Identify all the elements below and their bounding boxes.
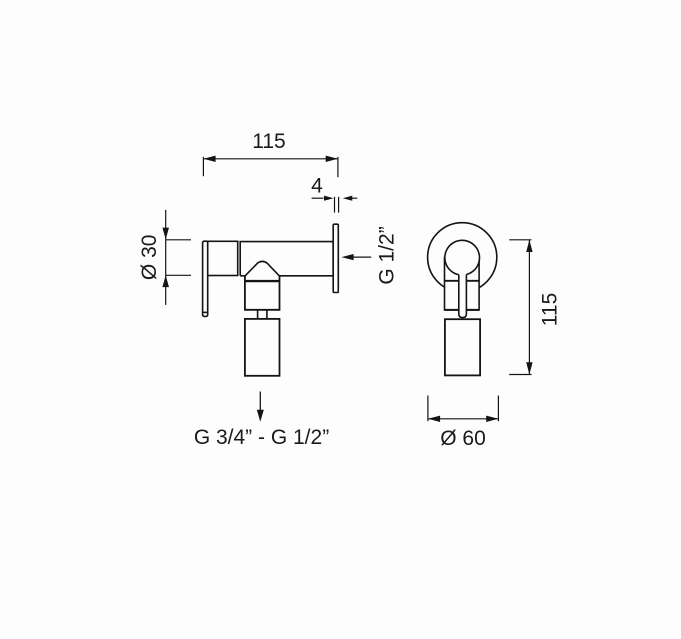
outlet flow arrow xyxy=(259,392,261,412)
svg-text:G 1/2”: G 1/2” xyxy=(376,226,399,284)
svg-text:115: 115 xyxy=(539,293,562,326)
dimension 115 (top) xyxy=(203,157,338,177)
front view: handle knob circle xyxy=(445,240,480,274)
dome transition (side view) xyxy=(245,261,280,276)
svg-text:Ø 60: Ø 60 xyxy=(440,427,486,450)
front view: body block xyxy=(445,258,480,310)
handle hub cylinder (side view) xyxy=(208,241,238,275)
G 1/2 inlet arrow xyxy=(353,256,371,258)
dimension 115 (front view height) xyxy=(509,240,531,375)
valve cartridge box (side view) xyxy=(245,276,280,310)
front view: lever strip xyxy=(459,275,467,318)
svg-text:Ø 30: Ø 30 xyxy=(138,235,161,281)
front view: outlet cylinder xyxy=(445,319,480,375)
outlet cylinder (side view) xyxy=(245,319,280,376)
lever handle (side view) xyxy=(203,241,208,316)
front view: outer flange circle xyxy=(428,223,497,292)
svg-text:4: 4 xyxy=(311,175,323,198)
wall flange (side view) xyxy=(333,224,338,292)
dimension 4 (flange thickness) xyxy=(312,197,358,213)
front view: body face line xyxy=(445,280,480,282)
svg-text:G 3/4” - G 1/2”: G 3/4” - G 1/2” xyxy=(194,426,329,449)
svg-text:115: 115 xyxy=(252,130,285,153)
dimension D60 (flange diameter) xyxy=(428,396,499,422)
neck (side view) xyxy=(258,310,267,319)
valve body tube (side view) xyxy=(240,242,333,276)
dimension D30 (handle diameter) xyxy=(166,210,191,305)
